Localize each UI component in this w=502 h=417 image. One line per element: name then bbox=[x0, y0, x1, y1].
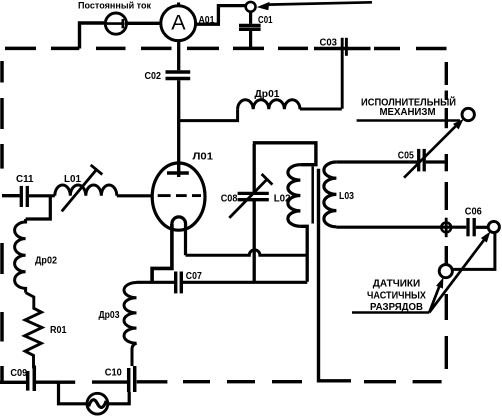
L03 bottom lead through bushing to C06 bbox=[336, 226, 466, 229]
svg-text:C01: C01 bbox=[258, 15, 273, 26]
svg-text:R01: R01 bbox=[50, 325, 67, 336]
svg-text:ЧАСТИЧНЫХ: ЧАСТИЧНЫХ bbox=[367, 290, 426, 301]
transformer core bbox=[311, 167, 314, 224]
anode plate bbox=[167, 164, 189, 178]
L03 top lead to C05 bbox=[336, 160, 417, 163]
wire ammeter to C01 terminal bbox=[196, 6, 246, 25]
variable capacitor C05 bbox=[419, 149, 425, 172]
svg-text:ДАТЧИКИ: ДАТЧИКИ bbox=[373, 279, 420, 290]
ammeter lead down to C02 bbox=[177, 40, 180, 70]
terminal PD sensor on wall bbox=[439, 265, 452, 278]
svg-text:L01: L01 bbox=[64, 174, 81, 185]
loop wire from right terminal down to wall terminal bbox=[453, 233, 495, 270]
capacitor C09 bbox=[28, 366, 35, 392]
wire C11 to L01 coil bbox=[29, 194, 55, 197]
svg-text:C06: C06 bbox=[465, 207, 482, 218]
capacitor C03 bbox=[342, 38, 346, 109]
underline bbox=[357, 119, 460, 122]
capacitor C01 bbox=[239, 12, 261, 47]
grid dashed line bbox=[158, 194, 201, 197]
AC source G2 bbox=[87, 393, 108, 414]
resistor R01 zigzag bbox=[25, 293, 42, 369]
svg-text:C03: C03 bbox=[320, 37, 338, 48]
svg-text:Л01: Л01 bbox=[193, 152, 214, 163]
terminal PD sensor right bbox=[488, 221, 499, 232]
wire DC source to ammeter bbox=[127, 22, 162, 25]
terminal for actuator bbox=[462, 108, 474, 120]
svg-text:Др02: Др02 bbox=[35, 256, 57, 267]
svg-text:РАЗРЯДОВ: РАЗРЯДОВ bbox=[370, 302, 423, 313]
L02 bottom lead bbox=[300, 226, 307, 281]
core ground wire to tank bottom bbox=[319, 169, 352, 381]
arrow to right terminal bbox=[429, 232, 490, 313]
wire C08 vertical bbox=[253, 144, 256, 192]
arrow pointing to C01 terminal bbox=[257, 2, 372, 10]
wire C02 down to anode of tube bbox=[177, 80, 180, 163]
capacitor C10 bbox=[129, 366, 135, 392]
svg-text:C02: C02 bbox=[145, 71, 162, 82]
left dashed edge of tank bbox=[0, 61, 4, 381]
variable inductor L01 bbox=[55, 165, 117, 212]
svg-text:L03: L03 bbox=[339, 191, 354, 202]
top rail connecting C08 and L02 bbox=[253, 143, 316, 165]
tube L01 (Л01) envelope bbox=[152, 163, 205, 230]
junction leg down to Dr02 bbox=[26, 196, 51, 219]
ammeter A bbox=[161, 3, 196, 41]
wire from left edge to C11 bbox=[2, 194, 20, 197]
svg-text:A: A bbox=[171, 11, 186, 35]
choke Dr01 bbox=[179, 100, 342, 121]
inductor L03 secondary bbox=[324, 162, 337, 227]
bushing node on tank wall bbox=[441, 218, 451, 238]
inductor L02 primary bbox=[288, 165, 301, 227]
svg-text:C09: C09 bbox=[10, 368, 27, 379]
tank bottom dashed edge bbox=[92, 380, 442, 384]
choke Dr03 bbox=[124, 283, 137, 367]
svg-text:C08: C08 bbox=[221, 193, 238, 204]
DC source terminal G1 bbox=[105, 13, 126, 34]
actuator arrow through C05 to terminal bbox=[404, 119, 464, 178]
svg-text:C05: C05 bbox=[398, 150, 414, 161]
terminal XT1 at C01 bbox=[246, 2, 256, 12]
svg-text:C07: C07 bbox=[186, 271, 202, 282]
capacitor C11 bbox=[21, 186, 27, 207]
bottom-left wires around C09 bbox=[0, 381, 26, 384]
capacitor C06 bbox=[468, 218, 474, 236]
AC source loop bbox=[59, 382, 88, 404]
svg-text:C10: C10 bbox=[105, 368, 122, 379]
trimmer capacitor C08 bbox=[229, 174, 272, 218]
svg-text:Др01: Др01 bbox=[255, 89, 280, 100]
tank right dashed edge bbox=[445, 62, 448, 369]
choke Dr02 bbox=[15, 219, 26, 293]
wire DC input down to tank edge bbox=[80, 23, 105, 49]
capacitor C07 bbox=[176, 272, 182, 294]
cathode bbox=[152, 217, 186, 282]
arrow to wall terminal bbox=[429, 277, 443, 312]
cathode wire right with hop over C08 wire bbox=[186, 250, 308, 255]
svg-text:Постоянный ток: Постоянный ток bbox=[78, 0, 151, 11]
tank top dashed edge bbox=[5, 47, 447, 51]
wire L01 to tube grid bbox=[117, 194, 153, 197]
svg-text:C11: C11 bbox=[16, 174, 34, 185]
svg-text:МЕХАНИЗМ: МЕХАНИЗМ bbox=[380, 107, 436, 118]
cathode rail / C07 line bbox=[137, 281, 175, 284]
underline bbox=[352, 311, 429, 314]
capacitor C02 bbox=[166, 72, 191, 79]
svg-text:Др03: Др03 bbox=[99, 310, 120, 321]
